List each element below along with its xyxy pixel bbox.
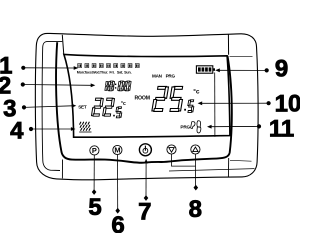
svg-text:Fri.: Fri. <box>109 70 114 74</box>
svg-text:9: 9 <box>275 56 288 83</box>
svg-text:ROOM: ROOM <box>135 96 150 102</box>
svg-text:PRG: PRG <box>166 74 176 79</box>
front panel edge: left bow, bottom swoosh, right bow <box>56 42 232 163</box>
callout 8 with bracket to down/up buttons <box>172 154 202 223</box>
seam right of swoosh <box>230 159 252 162</box>
callout 11 <box>207 116 294 143</box>
right top tick <box>227 34 229 55</box>
svg-text:6: 6 <box>111 212 124 233</box>
up button <box>191 145 200 154</box>
program/hand icon (callout 11 target) <box>191 121 201 133</box>
svg-text:P: P <box>92 146 97 155</box>
left top tick <box>62 35 64 55</box>
callout 5 <box>88 155 101 221</box>
svg-text:4: 4 <box>10 118 24 145</box>
svg-text:11: 11 <box>269 116 294 143</box>
inner bottom-right seam line <box>169 169 255 171</box>
svg-text:Thur.: Thur. <box>100 70 108 74</box>
heating-on icon (callout 4 target) <box>80 122 91 131</box>
down button <box>167 145 176 154</box>
LCD zone divider line <box>214 73 216 137</box>
svg-text:5: 5 <box>88 194 101 221</box>
svg-text:°c: °c <box>193 87 200 95</box>
right lower tick <box>227 158 229 177</box>
clock button <box>139 144 151 156</box>
callout 6 <box>111 155 124 239</box>
set temperature 22.5 <box>91 98 122 118</box>
svg-text:°c: °c <box>121 101 126 107</box>
day names Mon-Sun <box>77 70 132 74</box>
LCD screen frame <box>64 54 230 137</box>
svg-text:7: 7 <box>138 199 151 226</box>
callout 10 <box>198 91 302 118</box>
battery icon (callout 9 target) <box>196 66 215 73</box>
callout 2 <box>0 73 95 100</box>
callout 4 <box>10 118 75 145</box>
callout 7 <box>138 159 151 226</box>
left lower tick <box>61 160 63 179</box>
day period boxes row <box>78 64 140 68</box>
svg-text:SET: SET <box>78 105 87 110</box>
svg-text:8: 8 <box>189 196 202 223</box>
button P <box>90 146 99 155</box>
inner case ledge and left edge <box>42 41 62 170</box>
thermostat outer case <box>35 33 258 179</box>
svg-text:M: M <box>114 146 120 155</box>
room temperature 25.5 <box>152 86 195 112</box>
seam right of screen <box>230 55 253 57</box>
svg-text:10: 10 <box>275 91 300 118</box>
svg-text:Sat.: Sat. <box>117 70 123 74</box>
svg-text:Sun.: Sun. <box>124 70 132 74</box>
svg-text:PRG: PRG <box>180 125 190 130</box>
time 18:00 <box>105 81 131 91</box>
callout 1 <box>0 53 78 80</box>
svg-text:MAN: MAN <box>152 74 163 79</box>
button M <box>113 145 122 154</box>
callout 3 <box>3 96 76 123</box>
callout 9 <box>215 56 288 83</box>
